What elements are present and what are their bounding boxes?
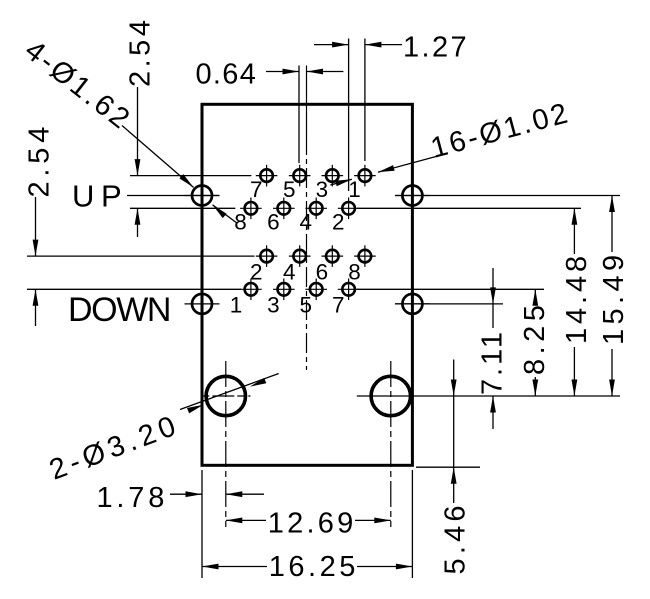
pin 5 (DOWN group, lower row) with crosshair [305, 279, 327, 301]
label text 16-Ø1.02 [428, 97, 574, 165]
svg-text:2: 2 [250, 259, 263, 284]
label DOWN [68, 291, 170, 329]
label text 4-Ø1.62 [19, 34, 138, 137]
dimension 2.54 top arrow upper [135, 159, 141, 176]
dimension text 16.25 [269, 551, 359, 583]
pin number label 7 (DOWN) [332, 293, 345, 318]
mounting hole 2 centerline vertical [390, 361, 392, 527]
extension line DOWN row1/3/5/7 left (2.54 left) [27, 288, 241, 290]
pin number label 4 (UP) [300, 210, 313, 235]
extension line DOWN row2/4/6/8 (2.54 left) [27, 255, 255, 257]
svg-text:6: 6 [316, 259, 329, 284]
dimension 16.25 arrow left [202, 564, 219, 570]
leader 16-Ø1.02 tail [330, 179, 352, 185]
dimension 5.46 line middle [453, 396, 455, 503]
dimension 7.11 arrow bottom (outside, pointing up) [490, 396, 496, 413]
dimension text 1.27 [403, 32, 469, 64]
pin 6 (UP group, lower row) with crosshair [273, 198, 295, 220]
leader 4-Ø1.62 arrow upper (pointing at hole) [179, 174, 193, 187]
svg-text:15.49: 15.49 [598, 250, 630, 345]
dimension text 14.48 [561, 252, 593, 344]
dimension 12.69 arrow left [226, 518, 243, 524]
leader line 2-Ø3.20 (through hole) [180, 374, 279, 410]
pin number label 5 (DOWN) [300, 293, 313, 318]
dimension 1.78 arrow right (pointing left) [226, 491, 243, 497]
dimension 2.54 left line upper [35, 197, 37, 256]
svg-text:3: 3 [316, 177, 329, 202]
extension line pin2 column (1.27 left) [348, 39, 350, 192]
dimension text 0.64 [196, 59, 258, 91]
dimension 0.64 line right [307, 71, 344, 73]
leader 16-Ø1.02 arrow lower (pointing at pin 1) [335, 179, 352, 186]
leader line 16-Ø1.02 [378, 157, 436, 173]
dimension 0.64 arrow left [283, 69, 300, 75]
extension line body left edge bottom [201, 470, 203, 578]
extension line body bottom edge right (5.46) [416, 466, 480, 468]
dimension 7.11 line middle [492, 304, 494, 328]
dimension 12.69 line left [226, 519, 266, 521]
pin 2 (UP group, lower row) with crosshair [338, 198, 360, 220]
pin 5 (UP group, upper row) with crosshair [289, 165, 311, 187]
leader 4-Ø1.62 arrow lower (pointing at hole) [213, 205, 227, 218]
pin number label 4 (DOWN) [283, 259, 296, 284]
leader 16-Ø1.02 arrow upper (pointing at pin 1) [378, 165, 395, 172]
extension line pin1 column (1.27 right) [364, 39, 366, 162]
mounting hole 1 centerline horizontal [201, 395, 250, 397]
dimension 2.54 left line lower [35, 289, 37, 326]
dimension 2.54 top line upper [137, 87, 139, 176]
dimension 2.54 left arrow lower [33, 289, 39, 306]
dimension 1.27 line right [365, 44, 402, 46]
dimension 0.64 line left [266, 71, 299, 73]
pin 2 (DOWN group, upper row) with crosshair [256, 245, 278, 267]
svg-text:1.27: 1.27 [403, 32, 469, 64]
svg-text:6: 6 [267, 210, 280, 235]
extension line body right edge bottom [411, 470, 413, 578]
leader line 4-Ø1.62 [122, 126, 194, 188]
dimension 15.49 arrow bottom [609, 380, 615, 397]
svg-text:UP: UP [72, 179, 128, 214]
dimension 1.78 line left [170, 493, 202, 495]
pin 4 (DOWN group, upper row) with crosshair [289, 245, 311, 267]
dimension 1.27 arrow right [365, 42, 382, 48]
extension line row7/5/3/1 (2.54 top) [130, 175, 251, 177]
extension line DOWN row1/3/5/7 right (8.25) [357, 288, 544, 290]
dimension 15.49 arrow top [609, 196, 615, 213]
pin number label 2 (UP) [332, 210, 345, 235]
svg-text:2.54: 2.54 [24, 122, 56, 198]
pin 8 (DOWN group, upper row) with crosshair [354, 245, 376, 267]
svg-text:1.78: 1.78 [97, 482, 169, 514]
svg-text:5: 5 [283, 177, 296, 202]
dimension 2.54 top line lower [137, 208, 139, 237]
pin number label 7 (UP) [250, 177, 263, 202]
dimension 8.25 line lower [534, 377, 536, 396]
svg-text:0.64: 0.64 [196, 59, 258, 91]
dimension text 7.11 [477, 329, 509, 395]
label text 2-Ø3.20 [45, 409, 184, 487]
pin number label 6 (DOWN) [316, 259, 329, 284]
leader 2-Ø3.20 arrow left (pointing at hole) [187, 405, 203, 414]
dimension text 8.25 [519, 301, 551, 375]
extension line UP hole row right (15.49) [395, 195, 620, 197]
dimension 1.78 arrow left (pointing right) [186, 491, 203, 497]
dimension text 2.54 top [125, 17, 157, 87]
pin 3 (DOWN group, lower row) with crosshair [273, 279, 295, 301]
dimension 16.25 arrow right [396, 564, 413, 570]
pin number label 8 (UP) [234, 210, 247, 235]
pin 4 (UP group, lower row) with crosshair [305, 198, 327, 220]
pin 7 (DOWN group, lower row) with crosshair [338, 279, 360, 301]
dimension 14.48 line lower [573, 347, 575, 396]
leader 4-Ø1.62 tail [213, 205, 238, 224]
pin number label 1 (DOWN) [230, 293, 243, 318]
dimension 8.25 arrow top [532, 289, 538, 306]
svg-text:5: 5 [300, 293, 313, 318]
mounting hole 1 Ø3.20 [206, 376, 245, 415]
svg-text:DOWN: DOWN [68, 291, 170, 329]
svg-text:7.11: 7.11 [477, 329, 509, 395]
dimension 2.54 top arrow lower [135, 208, 141, 225]
svg-text:5.46: 5.46 [440, 501, 472, 574]
svg-text:8.25: 8.25 [519, 301, 551, 375]
dimension 5.46 arrow top (outside, pointing down) [451, 380, 457, 397]
mounting hole 2 Ø3.20 [371, 376, 410, 415]
svg-text:16.25: 16.25 [269, 551, 359, 583]
pin number label 8 (DOWN) [348, 259, 361, 284]
corner hole Ø1.62 right UP [395, 186, 430, 206]
dimension text 1.78 [97, 482, 169, 514]
pin number label 2 (DOWN) [250, 259, 263, 284]
dimension 12.69 line right [355, 519, 391, 521]
extension line pin5 column (0.64) [298, 66, 300, 164]
pin 7 (UP group, upper row) with crosshair [256, 165, 278, 187]
vertical centerline [306, 135, 308, 370]
dimension 8.25 line upper [534, 289, 536, 303]
leader 2-Ø3.20 arrow right (pointing at hole) [250, 378, 266, 387]
svg-text:14.48: 14.48 [561, 252, 593, 344]
svg-text:4: 4 [300, 210, 313, 235]
svg-text:3: 3 [267, 293, 280, 318]
dimension 12.69 arrow right [374, 518, 391, 524]
corner hole Ø1.62 left DOWN [185, 294, 220, 314]
svg-text:7: 7 [332, 293, 345, 318]
pin 8 (UP group, lower row) with crosshair [240, 198, 262, 220]
pin 3 (UP group, upper row) with crosshair [322, 165, 344, 187]
dimension 1.78 line right [226, 493, 264, 495]
dimension 14.48 line upper [573, 208, 575, 254]
corner hole Ø1.62 left UP [185, 186, 220, 206]
dimension 14.48 arrow top [572, 208, 578, 225]
dimension 1.27 arrow left [332, 42, 349, 48]
dimension text 15.49 [598, 250, 630, 345]
label UP [72, 179, 128, 214]
svg-text:2.54: 2.54 [125, 17, 157, 87]
corner hole Ø1.62 right DOWN [395, 294, 430, 314]
pin 1 (DOWN group, lower row) with crosshair [240, 279, 262, 301]
svg-text:1: 1 [230, 293, 243, 318]
vertical centerline upper segment [306, 66, 308, 136]
svg-text:12.69: 12.69 [268, 508, 357, 540]
dimension 5.46 tail above [453, 360, 455, 397]
dimension 1.27 line left [314, 44, 349, 46]
dimension 8.25 arrow bottom [532, 380, 538, 397]
mounting hole 1 centerline vertical [225, 361, 227, 527]
dimension 0.64 arrow right [307, 69, 324, 75]
pin number label 1 (UP) [348, 177, 361, 202]
dimension 7.11 line lower [492, 396, 494, 429]
dimension text 2.54 left [24, 122, 56, 198]
pin number label 3 (DOWN) [267, 293, 280, 318]
dimension 5.46 arrow bottom (outside, pointing up) [451, 467, 457, 484]
dimension text 12.69 [268, 508, 357, 540]
svg-text:1: 1 [348, 177, 361, 202]
pin number label 5 (UP) [283, 177, 296, 202]
dimension 16.25 line right [357, 566, 412, 568]
extension line UP hole row [127, 195, 220, 197]
pin number label 3 (UP) [316, 177, 329, 202]
pin 6 (DOWN group, upper row) with crosshair [322, 245, 344, 267]
dimension 16.25 line left [202, 566, 267, 568]
dimension 7.11 tail above [492, 268, 494, 304]
mounting hole 2 centerline horizontal + extension line to 15.49 [357, 395, 620, 397]
board outline rectangle [202, 104, 412, 465]
svg-text:4: 4 [283, 259, 296, 284]
extension line row8/6/4/2 right (14.48) [357, 207, 581, 209]
dimension 15.49 line lower [611, 349, 613, 396]
extension line DOWN hole row right (7.11) [395, 303, 503, 305]
dimension text 5.46 [440, 501, 472, 574]
dimension 14.48 arrow bottom [572, 380, 578, 397]
svg-text:7: 7 [250, 177, 263, 202]
dimension 15.49 line upper [611, 196, 613, 253]
svg-text:8: 8 [348, 259, 361, 284]
pin number label 6 (UP) [267, 210, 280, 235]
svg-text:2: 2 [332, 210, 345, 235]
dimension 2.54 left arrow upper [33, 240, 39, 257]
pin 1 (UP group, upper row) with crosshair [354, 165, 376, 187]
dimension 7.11 arrow top (outside, pointing down) [490, 287, 496, 304]
extension line row8/6/4/2 left (2.54 top) [130, 207, 235, 209]
